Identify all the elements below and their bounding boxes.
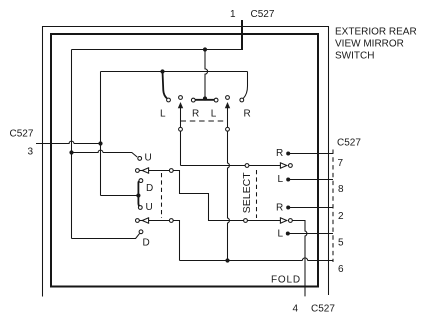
actuator 1 pivot circle (179, 96, 183, 100)
actuator 1 arrow (178, 102, 183, 108)
left D/U bracket bar (138, 181, 139, 206)
fold arm 2 (149, 220, 170, 222)
actuator 2 shaft with hops (228, 105, 230, 261)
connector C527 pin 1 lead (241, 20, 243, 49)
terminal L inner circle (214, 98, 218, 102)
actuator 1 link circle (179, 127, 183, 131)
svg-text:4: 4 (293, 304, 299, 315)
actuator 2 arrow (225, 102, 230, 108)
svg-text:5: 5 (338, 238, 344, 249)
wire pin1 feed horizontal (72, 49, 244, 51)
node L pin8 (286, 178, 290, 182)
bracket U circle (138, 206, 142, 210)
wire L output to pin 5 (289, 233, 333, 235)
actuator 1 shaft (180, 105, 182, 166)
wire pin3 top rail (101, 71, 248, 73)
svg-text:6: 6 (338, 264, 344, 275)
svg-text:EXTERIOR REAR: EXTERIOR REAR (335, 27, 417, 38)
svg-text:U: U (145, 153, 152, 164)
wire L output to pin 8 (290, 179, 333, 181)
wire cross link (arm1 to row C) (173, 171, 280, 221)
svg-text:L: L (160, 109, 166, 120)
connector C527 dashed line (right) (332, 150, 334, 263)
svg-text:R: R (276, 148, 283, 159)
node pin3 to vertical2 (98, 141, 102, 145)
svg-text:D: D (143, 238, 150, 249)
node shaft2 to pin6 (225, 258, 229, 262)
hop pin6 over fold wire (302, 258, 307, 261)
node pin1 branch junction (203, 47, 207, 51)
bracket D circle (139, 179, 143, 183)
wire pin1 branch down with hop over rail (205, 50, 208, 98)
svg-text:8: 8 (338, 184, 344, 195)
node L pin5 (286, 232, 290, 236)
fold arm 2 pivot circle (169, 219, 173, 223)
terminal U circle (138, 157, 142, 161)
wire select row A (181, 165, 281, 167)
switch body outer border (open at bottom) (43, 27, 329, 297)
svg-text:1: 1 (230, 9, 236, 20)
switch lever D (bottom left) (72, 234, 140, 239)
link circle on row A (245, 164, 249, 168)
switch body inner border (51, 34, 318, 287)
mechanical link dashed (top pair) (181, 120, 226, 122)
fold arm 2 contact circle (136, 219, 140, 223)
svg-text:C527: C527 (10, 129, 34, 140)
svg-text:U: U (146, 202, 153, 213)
node R pin2 (286, 206, 290, 210)
switch lever R (right) (243, 72, 247, 99)
svg-text:FOLD: FOLD (271, 275, 301, 286)
wire R output to pin 2 (290, 207, 333, 209)
wire U lever row with hop (72, 150, 138, 157)
node bracket feed (136, 193, 140, 197)
wire vertical feed (pin1 inner) (71, 50, 73, 239)
node U lever feed (69, 150, 73, 154)
svg-text:C527: C527 (311, 304, 335, 315)
terminal R inner circle (191, 98, 195, 102)
contact arm A arrowhead (280, 163, 286, 168)
terminal D circle (139, 230, 143, 234)
svg-text:L: L (278, 174, 284, 185)
svg-text:R: R (244, 109, 251, 120)
wire pin 6 common row (180, 260, 334, 262)
svg-text:SWITCH: SWITCH (335, 51, 374, 62)
svg-text:C527: C527 (251, 9, 275, 20)
fold arm 1 pivot circle (169, 169, 173, 173)
actuator 2 link circle (226, 127, 230, 131)
terminal L circle (167, 98, 171, 102)
wire bracket feed (101, 195, 139, 197)
wire pin3 input row with hop (36, 141, 101, 143)
select dashed link (256, 170, 258, 218)
node L lever junction (160, 69, 164, 73)
node R pin7 (286, 152, 290, 156)
link circle on row C (244, 219, 248, 223)
fold arm 1 arrowhead (142, 168, 148, 173)
svg-text:7: 7 (338, 158, 344, 169)
wire R output to pin 7 (290, 153, 333, 155)
svg-text:3: 3 (28, 147, 34, 158)
terminal R circle (240, 98, 244, 102)
svg-text:VIEW MIRROR: VIEW MIRROR (335, 39, 404, 50)
contact arm C arrowhead (280, 218, 286, 223)
node bracket center (203, 96, 207, 100)
svg-text:D: D (146, 183, 153, 194)
switch lever L (left, thick) (163, 72, 167, 99)
contact C circle (289, 219, 293, 223)
wire fold contact to pin 4 (292, 221, 307, 297)
svg-text:2: 2 (338, 211, 344, 222)
wire arm2 to pin6 row (173, 221, 179, 261)
wire pin3 rail vertical (100, 72, 102, 196)
contact A circle (289, 164, 293, 168)
fold arm 2 arrowhead (142, 218, 148, 223)
svg-text:C527: C527 (337, 138, 361, 149)
svg-text:L: L (211, 109, 217, 120)
svg-text:R: R (192, 109, 199, 120)
svg-text:R: R (276, 203, 283, 214)
bracket common contact (R,L inner pair) (195, 99, 214, 101)
svg-text:SELECT: SELECT (241, 172, 253, 213)
mech dashed link (left arms) (161, 173, 163, 218)
fold arm 1 (149, 170, 170, 172)
actuator 2 pivot circle (226, 96, 230, 100)
fold arm 1 contact circle (136, 169, 140, 173)
svg-text:L: L (278, 229, 284, 240)
